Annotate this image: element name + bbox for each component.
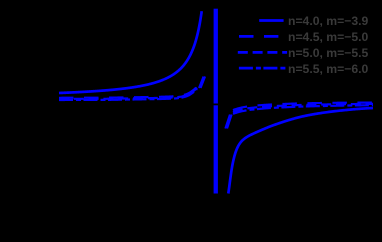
dash gap notch in asymptote bar	[213, 104, 219, 106]
svg-text:n=4.0, m=−3.9: n=4.0, m=−3.9	[288, 14, 369, 28]
curve n=4.5, m=-5.0 : left branch (long dashes)	[59, 87, 197, 98]
left dashed bundle steep fragment (second)	[201, 77, 206, 89]
legend key line: solid	[259, 19, 283, 22]
svg-text:n=5.0, m=−5.5: n=5.0, m=−5.5	[288, 46, 369, 60]
left dashed bundle steep fragment near asymptote	[199, 77, 204, 89]
legend key line: long dashes	[239, 35, 278, 38]
curve n=5.5, m=-6.0 : left branch (dash-dot)	[59, 89, 197, 100]
curve n=4.5, m=-5.0 : right branch	[233, 103, 373, 111]
legend key line: dash-dot	[239, 67, 287, 70]
curve n=4.0, m=-3.9 : left branch (solid)	[59, 11, 202, 93]
curve n=4.0, m=-3.9 : right branch (solid)	[228, 108, 373, 194]
svg-text:n=4.5, m=−5.0: n=4.5, m=−5.0	[288, 30, 369, 44]
svg-text:n=5.5, m=−6.0: n=5.5, m=−6.0	[288, 62, 369, 76]
curve n=5.5, m=-6.0 : right branch	[233, 105, 373, 114]
curve n=5.0, m=-5.5 : left branch (medium dashes)	[59, 88, 197, 99]
vertical asymptote bar	[214, 9, 218, 194]
right dashed bundle steep fragment near asymptote	[225, 115, 230, 129]
right dashed bundle steep fragment (second)	[227, 115, 232, 129]
legend key line: medium dashes	[238, 51, 287, 54]
curve n=5.0, m=-5.5 : right branch	[233, 104, 373, 112]
